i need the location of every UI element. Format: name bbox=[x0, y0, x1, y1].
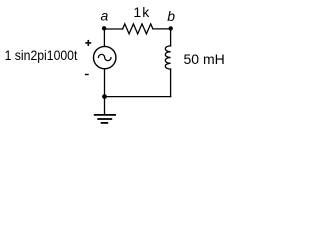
svg-text:1 k: 1 k bbox=[133, 4, 150, 20]
svg-text:1 sin2pi1000t: 1 sin2pi1000t bbox=[5, 47, 78, 63]
svg-text:50 mH: 50 mH bbox=[184, 51, 225, 67]
svg-text:b: b bbox=[167, 8, 175, 24]
svg-text:a: a bbox=[101, 8, 109, 24]
